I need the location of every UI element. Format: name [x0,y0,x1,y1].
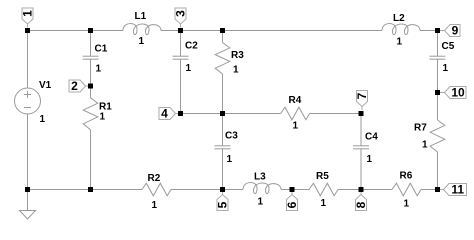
wire top rail left [28,30,124,32]
resistor R5 [309,183,338,196]
junction node 2 [88,84,93,89]
wire bottom rail 2 [171,189,243,191]
junction ground [25,187,30,192]
node 3 [175,8,186,24]
svg-text:10: 10 [451,86,465,100]
wire middle [181,113,281,115]
capacitor C2 [180,31,182,57]
svg-text:1: 1 [293,121,299,132]
svg-text:2: 2 [71,79,78,93]
node 8 [356,195,367,211]
svg-text:1: 1 [139,36,145,47]
junction node 3 [178,28,183,33]
junction node 7 [359,111,364,116]
svg-text:R4: R4 [289,95,302,106]
svg-text:C3: C3 [225,131,238,142]
svg-text:1: 1 [321,198,327,209]
svg-text:L2: L2 [393,13,405,24]
svg-text:1: 1 [21,10,35,17]
resistor R2 [142,183,171,196]
svg-text:R3: R3 [231,50,244,61]
resistor R7 [437,93,439,121]
node 10 [445,87,467,99]
inductor L1 [123,24,161,35]
junction R1 bottom [88,187,93,192]
node 1 [22,8,33,24]
junction node 10 [435,90,440,95]
svg-text:1: 1 [96,64,102,75]
svg-text:1: 1 [100,112,106,123]
capacitor C3 [222,114,224,146]
junction node 11 [435,187,440,192]
capacitor C1 [90,31,92,57]
svg-text:3: 3 [174,10,188,17]
svg-text:C2: C2 [185,41,198,52]
junction R3 top [220,28,225,33]
svg-text:1: 1 [186,63,192,74]
node 7 [357,91,368,107]
junction C1 top [88,28,93,33]
capacitor C4 [360,114,362,146]
svg-text:L1: L1 [135,11,147,22]
svg-text:R7: R7 [414,123,427,134]
capacitor C5 [437,31,439,57]
node 9 [445,25,461,37]
wire top rail right [420,30,438,32]
voltage source V1 [27,31,29,89]
wire bottom rail 1 [28,189,143,191]
wire bottom rail 4 [338,189,392,191]
junction C3 top [220,111,225,116]
svg-text:9: 9 [452,24,459,38]
svg-text:V1: V1 [39,80,52,91]
resistor R6 [392,183,421,196]
svg-text:5: 5 [216,201,230,208]
svg-text:1: 1 [404,199,410,210]
wire bottom rail 3 [281,189,309,191]
svg-text:R2: R2 [148,173,161,184]
svg-text:7: 7 [355,92,369,99]
svg-text:C4: C4 [365,132,378,143]
junction node 5 [220,187,225,192]
junction node 4 [178,111,183,116]
svg-text:1: 1 [152,200,158,211]
svg-text:L3: L3 [254,172,266,183]
resistor R3 [222,31,224,43]
junction node 9 [435,28,440,33]
svg-text:C5: C5 [442,41,455,52]
svg-text:R5: R5 [316,171,329,182]
node 6 [287,195,298,211]
svg-text:1: 1 [443,63,449,74]
inductor L3 [243,183,281,194]
wire bottom rail 5 [421,189,438,191]
node 11 [444,184,467,196]
svg-text:R6: R6 [400,171,413,182]
node 5 [217,195,228,211]
wire middle right [310,113,361,115]
junction node 1 [25,28,30,33]
svg-text:C1: C1 [95,44,108,55]
wire top rail middle [161,30,382,32]
svg-text:6: 6 [285,201,299,208]
svg-text:1: 1 [233,65,239,76]
ground [27,190,29,211]
svg-text:1: 1 [40,114,46,125]
node 2 [69,80,86,92]
svg-text:8: 8 [354,201,368,208]
svg-text:1: 1 [422,140,428,151]
svg-text:11: 11 [451,183,464,197]
svg-text:1: 1 [227,154,233,165]
resistor R1 [90,86,92,98]
node 4 [159,108,176,120]
svg-text:1: 1 [367,154,373,165]
inductor L2 [382,24,420,35]
svg-text:1: 1 [258,197,264,208]
junction node 6 [290,187,295,192]
svg-text:1: 1 [397,37,403,48]
junction node 8 [359,187,364,192]
resistor R4 [281,107,310,120]
svg-text:4: 4 [161,107,168,121]
